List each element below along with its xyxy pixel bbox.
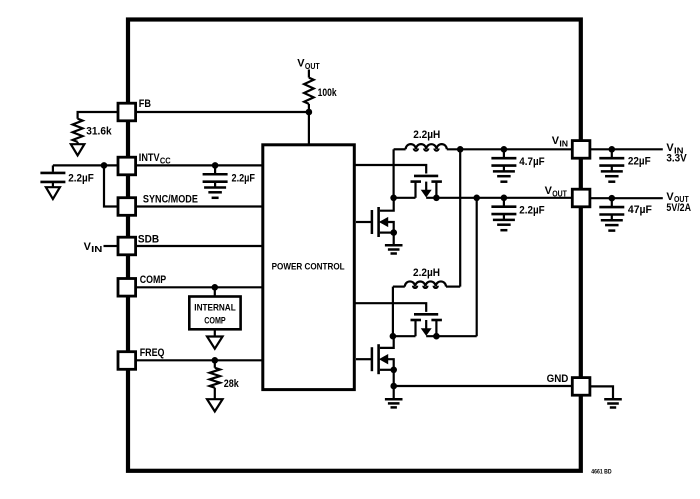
pin INTVCC <box>118 157 136 175</box>
pin COMP <box>118 279 136 297</box>
ground below Q4 <box>385 398 403 401</box>
transistor Q2 NMOS <box>356 221 372 223</box>
pin FB <box>118 103 136 121</box>
svg-text:SYNC/MODE: SYNC/MODE <box>143 194 198 206</box>
node switch A junction <box>390 195 397 202</box>
inductor L2 lead left <box>393 286 405 288</box>
wire L1 to VIN rail <box>447 148 573 150</box>
wire COMP to internal comp box <box>214 287 216 296</box>
wire GND rail <box>394 385 573 387</box>
wire VIN pin to output <box>590 148 663 150</box>
capacitor C3 4.7uF <box>503 149 505 158</box>
resistor R1 31.6k <box>73 119 83 142</box>
ground arrow below R3 <box>214 388 216 400</box>
wire R2 to node and into block <box>308 104 310 145</box>
svg-text:INTERNAL: INTERNAL <box>194 303 236 314</box>
svg-text:5V/2A: 5V/2A <box>666 202 691 214</box>
wire switch node A vertical <box>393 149 395 198</box>
wire VOUT rail left segment <box>394 197 416 199</box>
svg-text:OUT: OUT <box>305 61 320 71</box>
inductor L2 2.2uH <box>405 281 446 286</box>
pin VOUT <box>572 189 590 207</box>
svg-text:2.2µF: 2.2µF <box>68 172 94 184</box>
transistor Q1 PMOS <box>414 175 438 178</box>
wire COMP right <box>136 286 263 288</box>
wire VOUT pin to output <box>590 197 663 199</box>
svg-text:CC: CC <box>160 156 171 166</box>
outer IC boundary <box>128 20 581 471</box>
wire SDB right <box>136 245 263 247</box>
svg-text:POWER CONTROL: POWER CONTROL <box>272 262 345 273</box>
svg-text:GND: GND <box>547 373 569 385</box>
wire FREQ to R3 <box>214 360 216 368</box>
pin SYNC/MODE <box>118 198 136 216</box>
wire INTVCC right <box>136 164 263 166</box>
capacitor C4 2.2uF <box>503 198 505 207</box>
wire switch node B vertical <box>392 287 394 337</box>
wire VOUT rail right segment <box>426 197 572 199</box>
wire FB to 100k node <box>136 111 309 113</box>
node switch B junction <box>390 333 397 340</box>
wire L2 to branch A <box>446 286 460 288</box>
wire branch B vertical <box>476 198 478 336</box>
wire INTVCC left <box>53 164 118 166</box>
node L1/branch junction <box>457 146 464 153</box>
capacitor C1 2.2uF <box>52 165 54 171</box>
inductor L1 2.2uH <box>406 144 447 149</box>
transistor Q3 PMOS <box>414 313 438 316</box>
svg-text:IN: IN <box>559 138 568 148</box>
svg-text:3.3V: 3.3V <box>666 153 687 165</box>
node VOUT branch junction <box>473 195 480 202</box>
block INTERNAL COMP <box>189 297 240 330</box>
wire FREQ right <box>136 359 263 361</box>
wire VOUT to R2 <box>308 70 310 78</box>
resistor R3 28k <box>210 368 220 388</box>
pin VIN <box>572 141 590 159</box>
node INTVCC cap junction <box>212 162 219 169</box>
capacitor C2 2.2uF <box>214 165 216 174</box>
capacitor C6 47uF <box>611 198 613 207</box>
node VIN out cap junction <box>609 146 616 153</box>
wire gate Q3 PMOS <box>356 303 427 312</box>
node VOUT out cap junction <box>609 195 616 202</box>
ground arrow below R1 <box>76 142 78 144</box>
svg-text:INTV: INTV <box>139 152 160 164</box>
wire branch A vertical <box>459 149 461 286</box>
svg-text:28k: 28k <box>224 378 240 390</box>
wire gate Q1 PMOS <box>356 165 427 174</box>
svg-text:100k: 100k <box>318 87 338 99</box>
ground at GND pin <box>604 398 622 401</box>
wire Q4 source down <box>393 370 395 399</box>
wire FB to R1 <box>78 112 118 119</box>
wire VIN to SDB <box>104 245 119 247</box>
svg-text:31.6k: 31.6k <box>86 125 112 137</box>
pin FREQ <box>118 352 136 370</box>
node COMP junction <box>212 284 219 291</box>
ground arrow below C1 <box>46 187 60 199</box>
wire INTVCC to SYNC/MODE <box>104 165 118 206</box>
capacitor C5 22uF <box>611 149 613 158</box>
svg-text:47µF: 47µF <box>628 204 652 216</box>
svg-text:4.7µF: 4.7µF <box>519 156 545 168</box>
svg-text:2.2µH: 2.2µH <box>413 129 440 141</box>
resistor R2 100k <box>304 78 314 104</box>
ground below Q2 <box>385 244 403 247</box>
svg-text:FB: FB <box>139 98 151 110</box>
ground arrow below internal comp <box>214 329 216 336</box>
node VIN cap junction <box>501 146 508 153</box>
svg-text:2.2µH: 2.2µH <box>413 267 440 279</box>
node FB/100k junction <box>306 109 313 116</box>
block U1 POWER CONTROL <box>263 145 355 390</box>
wire SYNC/MODE right <box>136 205 263 207</box>
svg-text:22µF: 22µF <box>628 155 651 167</box>
pin GND <box>572 378 590 396</box>
wire Q2 source to ground <box>393 233 395 246</box>
wire switch rail right segment <box>426 335 477 337</box>
svg-text:COMP: COMP <box>140 274 167 286</box>
node GND rail junction <box>390 383 397 390</box>
svg-text:2.2µF: 2.2µF <box>232 172 256 184</box>
svg-text:4661 BD: 4661 BD <box>591 468 612 475</box>
node FREQ junction <box>212 357 219 364</box>
svg-text:FREQ: FREQ <box>140 347 165 359</box>
svg-text:COMP: COMP <box>204 316 226 327</box>
svg-text:IN: IN <box>91 244 102 254</box>
svg-text:2.2µF: 2.2µF <box>519 205 545 217</box>
transistor Q4 NMOS <box>356 358 372 360</box>
wire switch rail left segment <box>393 335 416 337</box>
wire GND pin to ground <box>590 386 613 398</box>
node VOUT cap junction <box>501 195 508 202</box>
svg-text:SDB: SDB <box>138 234 159 246</box>
pin SDB <box>118 237 136 255</box>
inductor L1 lead left <box>394 148 406 150</box>
node INTVCC left junction <box>101 162 108 169</box>
